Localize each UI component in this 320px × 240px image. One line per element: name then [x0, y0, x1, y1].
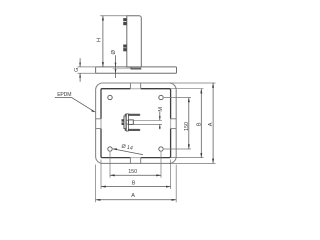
- gasket joint ticks: top: [96, 83, 177, 163]
- svg-text:150: 150: [128, 169, 137, 175]
- label EPDM with leader: [55, 92, 96, 112]
- base plate side view: [96, 67, 177, 73]
- svg-text:M: M: [158, 107, 164, 112]
- web centerline dots: [127, 120, 128, 121]
- dimension M: [133, 107, 164, 130]
- post (vertical channel) side view: [127, 16, 142, 67]
- gasket shading band under plate top edge: [113, 67, 132, 69]
- bottom horizontal dimension A: [96, 165, 177, 203]
- hole bottom-left: [108, 147, 112, 151]
- bolt shank square: [129, 120, 134, 125]
- bottom horizontal dimension B: [101, 160, 171, 190]
- washer plate: [124, 116, 126, 129]
- hole bottom-right: [159, 147, 163, 151]
- hole top-left: [108, 95, 112, 99]
- top arm: [125, 114, 141, 116]
- post foot recess band in plate: [131, 68, 141, 70]
- right vertical dimension A: [169, 83, 216, 163]
- svg-text:A: A: [208, 122, 214, 126]
- center channel assembly (plan view of post): [122, 114, 141, 131]
- EPDM outer pad: [96, 83, 177, 163]
- recess step under post: [131, 67, 141, 69]
- right vertical dimension 150: [164, 98, 191, 150]
- mid-side light segments on inner square: [101, 89, 171, 158]
- svg-text:Ø: Ø: [111, 50, 117, 55]
- label Ø 14 with leader to hole: [113, 144, 143, 155]
- dimension Ø (hole leader through plate): [111, 50, 117, 79]
- bolt 2 on post: [123, 45, 127, 52]
- hole top-right: [159, 95, 163, 99]
- bottom arm: [125, 129, 141, 131]
- hex bolt head: [122, 119, 124, 122]
- right vertical dimension B: [171, 89, 204, 158]
- dimension G (plate thickness): [74, 58, 95, 81]
- channel web: [126, 114, 128, 131]
- bottom horizontal dimension 150: [110, 152, 161, 178]
- steel plate inner square: [101, 89, 171, 158]
- svg-text:A: A: [131, 193, 135, 199]
- svg-text:B: B: [196, 122, 202, 126]
- dimension H: [96, 16, 126, 67]
- svg-text:H: H: [96, 38, 102, 42]
- svg-text:150: 150: [184, 122, 190, 131]
- svg-text:G: G: [74, 68, 80, 72]
- svg-text:B: B: [132, 180, 136, 186]
- bolt 1 on post: [123, 18, 127, 25]
